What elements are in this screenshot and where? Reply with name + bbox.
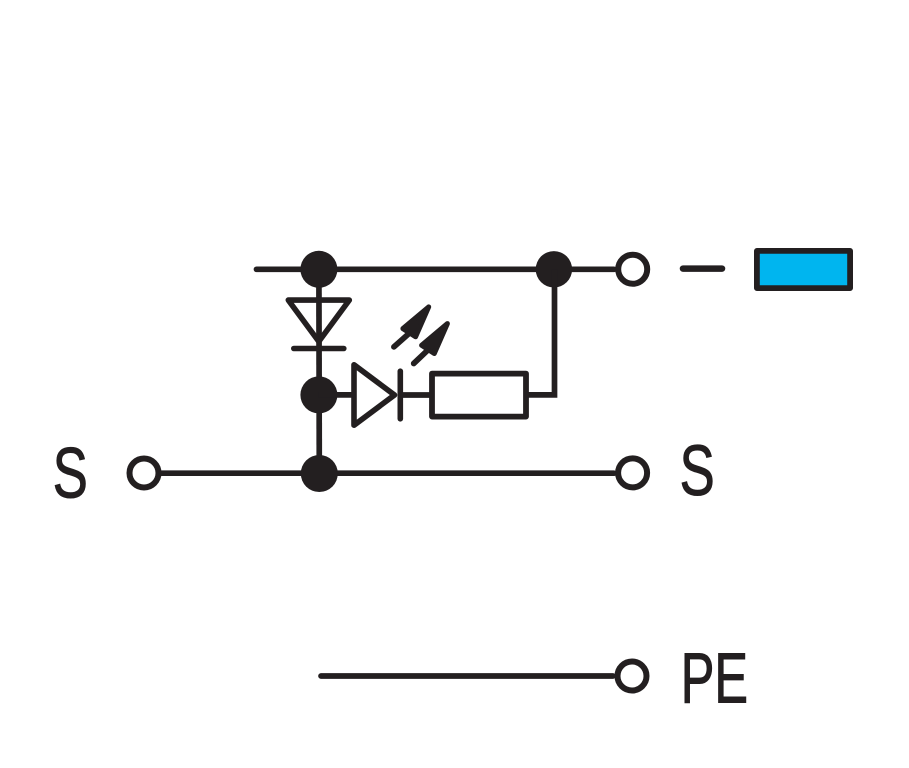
resistor R1 bbox=[432, 374, 526, 417]
LED D2 triangle bbox=[354, 365, 400, 425]
terminal: open circle S right bbox=[618, 458, 647, 487]
terminal: open circle top (minus) bbox=[618, 255, 647, 284]
wire: PE conductor bbox=[321, 673, 613, 679]
svg-text:PE: PE bbox=[681, 639, 748, 719]
node: junction top-right bbox=[536, 251, 572, 287]
minus sign label bbox=[683, 265, 722, 272]
diode D1 (suppressor diode, cathode bar) bbox=[288, 300, 349, 348]
LED arrow 2 bbox=[414, 324, 448, 364]
svg-text:S: S bbox=[53, 434, 88, 514]
terminal: open circle PE bbox=[618, 662, 647, 691]
wire: LED cathode to resistor bbox=[400, 392, 432, 398]
svg-text:S: S bbox=[680, 431, 715, 511]
node: junction S line bbox=[301, 455, 338, 492]
wire: resistor to vertical riser bbox=[526, 269, 555, 395]
terminal: open circle S left bbox=[130, 459, 159, 488]
LED arrow 1 bbox=[394, 307, 429, 347]
node: junction top-left bbox=[300, 251, 337, 288]
wire: vertical from top junction through diode to S junction bbox=[316, 269, 322, 474]
wire: S conductor bbox=[161, 470, 614, 476]
wire: top minus conductor bbox=[257, 266, 615, 272]
node: junction LED anode bbox=[300, 376, 337, 413]
wire: node to LED anode bbox=[319, 392, 356, 398]
blue marking rectangle bbox=[757, 251, 850, 288]
